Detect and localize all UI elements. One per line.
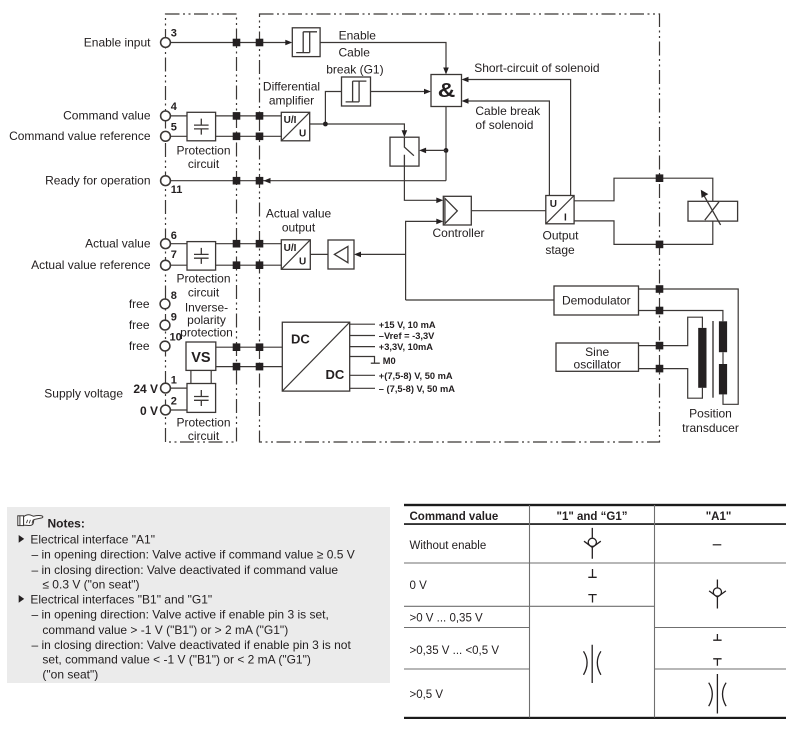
svg-text:+3,3V, 10mA: +3,3V, 10mA <box>379 342 433 352</box>
wire cable break of solenoid to AND <box>462 98 550 195</box>
wire protection2 to actual value U/I upper <box>216 243 282 245</box>
pin number 11 <box>171 184 183 196</box>
protection circuit box 3 <box>187 384 216 413</box>
switch symbol <box>404 138 414 166</box>
DC output wire +3,3V <box>350 346 375 348</box>
junction squares column B <box>256 39 264 371</box>
pin 7 circle <box>161 260 171 270</box>
svg-text:– in opening direction: Valve: – in opening direction: Valve active if … <box>32 548 355 562</box>
table row label 0,35V to 0,5V <box>410 645 500 657</box>
wire command value pin4 to protection <box>166 115 188 117</box>
svg-text:0 V: 0 V <box>410 580 428 592</box>
check valve symbol col2 row1 <box>584 528 601 559</box>
svg-text:U: U <box>299 129 306 140</box>
svg-text:+(7,5-8) V, 50 mA: +(7,5-8) V, 50 mA <box>379 371 453 381</box>
svg-text:U/I: U/I <box>284 115 297 126</box>
VS inverse-polarity protection box <box>186 342 216 370</box>
wire VS to DC/DC upper <box>216 346 282 348</box>
pin 4 circle <box>161 111 171 121</box>
value label M0 <box>383 356 396 366</box>
junction squares column C <box>656 174 664 372</box>
svg-text:– in closing direction: Valve: – in closing direction: Valve deactivate… <box>32 638 352 652</box>
wire hysteresis 2 to AND gate <box>371 89 432 95</box>
wire demodulator input 2 from secondary <box>639 311 723 322</box>
AND output vertical wire to ready line <box>445 107 447 181</box>
svg-text:amplifier: amplifier <box>269 94 314 108</box>
svg-text:– in opening direction: Valve: – in opening direction: Valve active if … <box>32 608 329 622</box>
demodulator box <box>554 286 639 315</box>
wire VS to DC/DC lower <box>216 366 282 368</box>
note line A1 closing <box>32 563 339 577</box>
notes hand icon <box>18 515 43 526</box>
svg-text:Controller: Controller <box>432 226 484 240</box>
wire ready for operation line with arrow to pin11 <box>166 178 447 184</box>
value label -(7,5-8) V <box>379 384 455 394</box>
svg-text:24 V: 24 V <box>133 382 158 396</box>
wire enable input pin3 to hysteresis <box>166 40 293 46</box>
wire sine oscillator to primary bottom <box>639 369 703 399</box>
solenoid adjustment arrow <box>701 190 721 225</box>
svg-text:Protection: Protection <box>176 271 230 285</box>
svg-text:circuit: circuit <box>188 429 220 443</box>
table column separator 2 <box>654 505 656 718</box>
svg-text:"1" and “G1”: "1" and “G1” <box>557 511 628 523</box>
svg-text:Actual value: Actual value <box>266 207 332 221</box>
note line A1 header <box>30 532 155 546</box>
svg-text:Command value: Command value <box>410 511 499 523</box>
cable-break hysteresis box G1 <box>342 77 371 106</box>
svg-text:Cable: Cable <box>339 45 371 59</box>
transducer secondary coil upper <box>719 321 727 352</box>
junction squares column A <box>233 39 241 371</box>
pin 11 circle <box>161 176 171 186</box>
check valve symbol col3 rows2-3 <box>709 580 726 609</box>
label Output stage <box>542 229 579 257</box>
DC output wire -Vref <box>350 335 375 337</box>
svg-text:Short-circuit of solenoid: Short-circuit of solenoid <box>474 61 599 75</box>
transducer core <box>712 321 714 398</box>
svg-text:Command value: Command value <box>63 109 151 123</box>
note line on seat <box>42 667 98 681</box>
wire demodulator output to feedback <box>406 299 554 301</box>
table row label Without enable <box>410 540 487 552</box>
AND gate box <box>431 75 462 107</box>
DC output wire +(7,5-8)V <box>350 374 375 376</box>
svg-text:5: 5 <box>171 122 177 134</box>
boundary box of valve electronics zone <box>260 14 660 442</box>
note line B1 closing cont <box>42 653 310 667</box>
label free pin10 <box>129 339 150 353</box>
value label +15 V, 10 mA <box>379 320 436 330</box>
wire supply pin1 to protection3 <box>166 387 188 389</box>
label free pin9 <box>129 318 150 332</box>
svg-text:1: 1 <box>171 374 177 386</box>
svg-text:U: U <box>299 257 306 268</box>
svg-text:Ready for operation: Ready for operation <box>45 174 150 188</box>
svg-text:DC: DC <box>326 367 345 382</box>
svg-text:circuit: circuit <box>188 157 220 171</box>
pin number 4 <box>171 101 178 113</box>
svg-text:>0 V ... 0,35 V: >0 V ... 0,35 V <box>410 613 484 625</box>
wire output stage to solenoid top <box>574 178 713 201</box>
pin number 7 <box>171 249 177 261</box>
ground symbol M0 <box>371 362 380 364</box>
label Protection circuit 2 <box>176 271 230 299</box>
svg-text:Command value reference: Command value reference <box>9 129 151 143</box>
wire protection to differential amplifier lower <box>216 135 282 137</box>
svg-text:command value > -1 V ("B1") or: command value > -1 V ("B1") or > 2 mA ("… <box>42 623 288 637</box>
pin 2 circle <box>161 405 171 415</box>
label Actual value <box>85 237 151 251</box>
boundary box of connector/protection zone <box>166 14 237 442</box>
svg-text:– (7,5-8) V, 50 mA: – (7,5-8) V, 50 mA <box>379 384 455 394</box>
table row label above 0,5V <box>410 689 444 701</box>
label Ready for operation <box>45 174 150 188</box>
table header underline <box>404 523 786 525</box>
table column separator 1 <box>529 505 531 718</box>
table row line 4 right <box>655 668 787 670</box>
svg-text:free: free <box>129 318 150 332</box>
flow symbol col2 merged rows <box>584 645 601 683</box>
table row line 4 left <box>404 668 530 670</box>
DC/DC converter box <box>282 322 349 391</box>
value label +3,3V <box>379 342 433 352</box>
table row line 2 <box>404 605 655 607</box>
capacitor symbol in protection 1 <box>194 119 209 135</box>
flow symbol col3 row5 <box>709 674 726 714</box>
svg-text:free: free <box>129 339 150 353</box>
svg-text:Output: Output <box>542 229 579 243</box>
switch box <box>390 137 419 166</box>
pin 6 circle <box>161 239 171 249</box>
svg-text:of solenoid: of solenoid <box>475 118 533 132</box>
label Actual value output <box>266 207 332 235</box>
protection circuit box 1 <box>187 112 216 141</box>
notes title <box>48 516 85 530</box>
svg-text:8: 8 <box>171 290 177 302</box>
svg-text:10: 10 <box>170 332 182 344</box>
label Enable <box>339 29 377 43</box>
hysteresis symbol 1 <box>296 32 317 53</box>
svg-text:("on seat"): ("on seat") <box>42 667 98 681</box>
wire protection2 to actual value U/I lower <box>216 264 282 266</box>
svg-text:DC: DC <box>291 332 310 347</box>
wire switch bottom to controller input 1 <box>404 166 443 203</box>
svg-text:&: & <box>438 79 456 101</box>
notes gray panel <box>7 507 390 683</box>
pin 10 circle <box>160 341 170 351</box>
output stage U I box <box>546 196 574 224</box>
table row label 0V to 0,35V <box>410 613 484 625</box>
wire junction to switch box right side <box>419 148 446 154</box>
svg-text:M0: M0 <box>383 356 396 366</box>
svg-text:9: 9 <box>171 311 177 323</box>
wire actual value reference pin7 to protection <box>166 264 188 266</box>
svg-text:free: free <box>129 297 150 311</box>
wire protection3 to VS left <box>190 370 192 383</box>
solenoid cross diagonal <box>705 202 719 220</box>
closed seat symbol col3 row4 <box>713 634 721 666</box>
svg-text:–Vref = -3,3V: –Vref = -3,3V <box>379 331 435 341</box>
label 24 V <box>133 382 158 396</box>
wire controller output to output stage <box>471 210 546 212</box>
svg-text:Protection: Protection <box>176 415 230 429</box>
svg-text:Cable break: Cable break <box>475 104 541 118</box>
capacitor symbol in protection 3 <box>194 390 209 406</box>
table row label 0 V <box>410 580 428 592</box>
wire short-circuit of solenoid to AND <box>462 77 571 196</box>
svg-text:2: 2 <box>171 396 177 408</box>
label Supply voltage <box>44 386 123 400</box>
note line A1 opening <box>32 548 355 562</box>
svg-text:Electrical interface "A1": Electrical interface "A1" <box>30 532 155 546</box>
inverter triangle symbol <box>334 246 348 262</box>
svg-text:Protection: Protection <box>176 143 230 157</box>
pin number 1 <box>171 374 177 386</box>
pin number 10 <box>170 332 182 344</box>
svg-text:11: 11 <box>171 184 183 196</box>
svg-text:protection: protection <box>180 326 233 340</box>
label Command value <box>63 109 151 123</box>
svg-text:"A1": "A1" <box>706 511 732 523</box>
svg-text:transducer: transducer <box>682 421 739 435</box>
actual value U/I U box <box>281 240 310 269</box>
svg-text:Enable input: Enable input <box>84 35 151 49</box>
svg-text:≤ 0.3 V ("on seat"): ≤ 0.3 V ("on seat") <box>42 577 139 591</box>
pin 3 circle <box>161 38 171 48</box>
differential amplifier U/I U box <box>281 112 309 141</box>
transducer secondary coil lower <box>719 364 727 394</box>
capacitor symbol in protection 2 <box>194 248 209 264</box>
wire output stage to solenoid bottom <box>574 221 713 245</box>
label Protection circuit 3 <box>176 415 230 443</box>
sine oscillator box <box>556 343 639 371</box>
label Protection circuit 1 <box>176 143 230 171</box>
value label +(7,5-8) V <box>379 371 453 381</box>
table header 1 and G1 <box>557 511 628 523</box>
dash symbol col3 row1 <box>713 544 722 546</box>
pin number 6 <box>171 230 177 242</box>
note line A1 closing cont <box>42 577 139 591</box>
pin number 9 <box>171 311 177 323</box>
svg-text:>0,35 V ... <0,5 V: >0,35 V ... <0,5 V <box>410 645 500 657</box>
table top border <box>404 504 786 506</box>
svg-text:oscillator: oscillator <box>574 357 621 371</box>
note line B1 G1 header <box>30 592 212 606</box>
table bottom border <box>404 717 786 719</box>
hysteresis symbol 2 <box>346 81 367 102</box>
note bullet A1 <box>19 535 25 543</box>
pin number 5 <box>171 122 177 134</box>
label Enable input <box>84 35 151 49</box>
transducer secondary link <box>722 352 724 364</box>
DC output wire +15V <box>350 323 375 325</box>
pin 5 circle <box>161 131 171 141</box>
junction node on diff amp output <box>323 122 328 127</box>
table header A1 <box>706 511 732 523</box>
table row line 1 <box>404 562 786 564</box>
svg-text:I: I <box>564 213 567 224</box>
wire protection to differential amplifier upper <box>216 115 282 117</box>
DC output wire M0 <box>350 357 375 364</box>
inverter box <box>328 240 354 269</box>
note line B1 opening <box>32 608 329 622</box>
label Inverse-polarity protection <box>180 301 233 340</box>
label Position transducer <box>682 407 739 435</box>
wire junction dot to hysteresis 2 <box>325 92 341 125</box>
svg-text:6: 6 <box>171 230 177 242</box>
label Cable break of solenoid <box>475 104 541 132</box>
svg-text:circuit: circuit <box>188 286 220 300</box>
transducer primary coil <box>698 328 706 388</box>
wire enable hysteresis to AND gate top <box>320 43 449 75</box>
pin number 2 <box>171 396 177 408</box>
label Command value reference <box>9 129 151 143</box>
table row line 3 right <box>655 627 787 629</box>
svg-text:+15 V, 10 mA: +15 V, 10 mA <box>379 320 436 330</box>
label free pin8 <box>129 297 150 311</box>
svg-text:Actual value reference: Actual value reference <box>31 258 151 272</box>
wire differential amplifier output to switch <box>310 124 408 137</box>
svg-text:Enable: Enable <box>339 29 377 43</box>
svg-text:>0,5 V: >0,5 V <box>410 689 444 701</box>
wire demodulator input 1 from secondary <box>639 289 739 404</box>
label Controller <box>432 226 484 240</box>
svg-text:Actual value: Actual value <box>85 237 151 251</box>
svg-text:U: U <box>550 199 557 210</box>
controller triangle symbol <box>445 198 457 223</box>
svg-text:output: output <box>282 220 316 234</box>
svg-text:0 V: 0 V <box>140 404 158 418</box>
controller box <box>443 196 471 225</box>
wire supply pin2 to protection3 <box>166 409 188 411</box>
wire actual value pin6 to protection <box>166 243 188 245</box>
closed seat symbol col2 row2 <box>588 569 596 603</box>
wire feedback vertical to controller input 2 <box>406 219 444 300</box>
table header Command value <box>410 511 499 523</box>
label Actual value reference <box>31 258 151 272</box>
pin number 8 <box>171 290 177 302</box>
svg-text:Position: Position <box>689 407 732 421</box>
wire sine oscillator to primary top <box>639 317 703 345</box>
pin 9 circle <box>160 320 170 330</box>
svg-text:Electrical interfaces "B1" and: Electrical interfaces "B1" and "G1" <box>30 592 212 606</box>
wire feedback tee to inverter box <box>354 252 406 258</box>
DC output wire -(7,5-8)V <box>350 387 375 389</box>
svg-text:Supply voltage: Supply voltage <box>44 386 123 400</box>
wire command value reference pin5 to protection <box>166 135 188 137</box>
note line B1 opening cont <box>42 623 288 637</box>
value label -Vref <box>379 331 435 341</box>
note bullet B1 G1 <box>19 595 25 603</box>
label 0 V <box>140 404 158 418</box>
label Short-circuit of solenoid <box>474 61 599 75</box>
label Cable break (G1) <box>326 45 383 76</box>
svg-text:Notes:: Notes: <box>48 516 85 530</box>
pin number 3 <box>171 28 177 40</box>
pin 1 circle <box>161 383 171 393</box>
svg-text:4: 4 <box>171 101 178 113</box>
svg-text:7: 7 <box>171 249 177 261</box>
svg-text:– in closing direction: Valve: – in closing direction: Valve deactivate… <box>32 563 339 577</box>
label Differential amplifier <box>263 80 320 108</box>
svg-text:3: 3 <box>171 28 177 40</box>
svg-text:U/I: U/I <box>284 243 297 254</box>
svg-text:Without enable: Without enable <box>410 540 487 552</box>
svg-text:break (G1): break (G1) <box>326 63 383 77</box>
svg-text:VS: VS <box>191 350 211 366</box>
junction dot on AND output <box>444 148 449 153</box>
table row line 3 left <box>404 627 530 629</box>
protection circuit box 2 <box>187 242 216 271</box>
wire protection3 to VS right <box>210 370 212 383</box>
svg-text:Differential: Differential <box>263 80 320 94</box>
proportional solenoid box <box>688 201 738 221</box>
enable hysteresis box <box>292 28 320 57</box>
pin 8 circle <box>160 299 170 309</box>
svg-text:set, command value < -1 V ("B1: set, command value < -1 V ("B1") or < 2 … <box>42 653 310 667</box>
note line B1 closing <box>32 638 352 652</box>
wire inverter to actual value U/I <box>310 253 328 255</box>
svg-text:Demodulator: Demodulator <box>562 294 631 308</box>
svg-text:stage: stage <box>545 243 575 257</box>
